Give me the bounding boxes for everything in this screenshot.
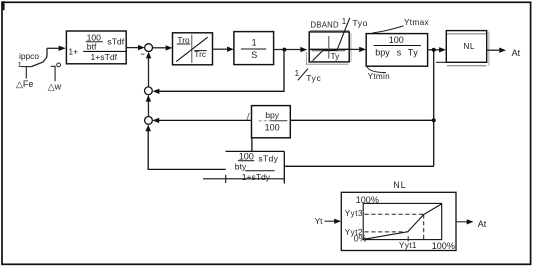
- arrowhead into S1: [138, 45, 145, 50]
- summing junction S1: [145, 44, 153, 52]
- leader Ytmax: [373, 26, 404, 33]
- arrowhead into S3: [152, 118, 159, 123]
- svg-text:1: 1: [252, 38, 257, 48]
- tick Yyt1: [407, 236, 409, 241]
- block G2 rate limiter Tro/Trc: [173, 33, 213, 65]
- svg-text:1+sTdf: 1+sTdf: [91, 52, 118, 62]
- leader Ytmin: [367, 67, 386, 73]
- svg-text:100%: 100%: [432, 241, 455, 251]
- wire NL detail output: [456, 221, 468, 223]
- svg-text:bty: bty: [235, 161, 247, 171]
- arrowhead into S1 from below: [146, 52, 151, 59]
- tick artifact at G5 input: [247, 113, 250, 121]
- block G3 integrator 1/S: [234, 32, 274, 65]
- wire G2 to G3: [213, 48, 228, 50]
- dashed Yyt3 line: [365, 213, 424, 215]
- svg-text:DBAND: DBAND: [310, 20, 339, 29]
- svg-text:100: 100: [389, 35, 404, 45]
- block DB deadband: [306, 18, 351, 64]
- switch blade: [32, 48, 48, 66]
- svg-text:sTdy: sTdy: [258, 154, 278, 164]
- NL detail outer box: [341, 192, 456, 250]
- wire switch to G1: [47, 47, 60, 49]
- svg-text:1: 1: [18, 60, 22, 69]
- svg-text:sTdf: sTdf: [107, 36, 124, 46]
- wire G5 to S3: [156, 119, 251, 121]
- svg-text:ippco: ippco: [19, 51, 39, 61]
- block G1 lead-lag 1+(100/btf)sTdf/(1+sTdf): [66, 31, 126, 64]
- svg-text:bpy: bpy: [265, 110, 280, 120]
- NL graph axes box: [363, 203, 442, 239]
- wire N1 feedback down: [157, 52, 285, 92]
- svg-text:Ytmin: Ytmin: [368, 72, 391, 81]
- block NL nonlinearity: [436, 31, 489, 66]
- wire S3 to S2: [147, 100, 149, 117]
- block G6 washout (100/bty)(sTdy/(1+sTdy)): [203, 151, 284, 183]
- arrowhead into S2 from below: [146, 95, 151, 102]
- svg-text:At: At: [512, 48, 521, 58]
- svg-text:100: 100: [265, 123, 280, 133]
- svg-text:Yyt1: Yyt1: [399, 241, 417, 250]
- summing junction S3: [145, 117, 153, 125]
- arrowhead output At: [467, 219, 474, 224]
- svg-text:0%: 0%: [354, 233, 367, 243]
- svg-text:100%: 100%: [356, 195, 379, 205]
- wire G1 to summer S1: [126, 47, 139, 49]
- NL characteristic curve: [363, 204, 441, 239]
- dashed Yyt2 line: [365, 231, 408, 233]
- wire dFe lead: [25, 67, 27, 79]
- node Yt junction dot: [432, 48, 436, 52]
- arrowhead into G1: [59, 46, 66, 51]
- minus sign at S1: [141, 53, 145, 55]
- svg-text:Tyo: Tyo: [352, 18, 368, 28]
- svg-text:At: At: [478, 219, 487, 229]
- svg-text:NL: NL: [463, 41, 475, 51]
- arrowhead At: [499, 48, 506, 53]
- svg-text:Trc: Trc: [194, 49, 206, 59]
- dashed vertical Yyt1-Yyt3 line: [423, 214, 425, 239]
- wire Yt node down: [433, 50, 435, 167]
- svg-text:NL: NL: [393, 180, 407, 190]
- arrowhead into G4: [359, 47, 366, 52]
- wire G4 to NL: [428, 49, 440, 51]
- svg-text:△w: △w: [48, 82, 62, 92]
- wire S1 to G2: [153, 47, 167, 49]
- contact 0 circle: [57, 63, 61, 67]
- block G4 servo 100/(bpy s Ty): [366, 34, 427, 67]
- svg-text:Ty: Ty: [408, 48, 419, 58]
- svg-text:100: 100: [239, 152, 254, 162]
- arrowhead into NL detail: [334, 219, 341, 224]
- svg-text:Yt: Yt: [315, 216, 324, 226]
- block G5 bpy/100: [252, 106, 291, 138]
- svg-text:1+sTdy: 1+sTdy: [242, 172, 271, 182]
- svg-text:S: S: [251, 50, 257, 60]
- wire NL to At: [487, 49, 499, 51]
- wire S2 to S1: [148, 57, 150, 87]
- svg-text:1: 1: [295, 69, 300, 78]
- wire G3 to deadband: [274, 49, 302, 51]
- node N1 junction dot: [282, 48, 286, 52]
- wire Yt to G6 input: [284, 165, 433, 167]
- svg-text:1+: 1+: [68, 46, 78, 56]
- summing junction S2: [145, 87, 153, 95]
- wire deadband to G4: [349, 48, 360, 50]
- label 1/Tyc: [298, 69, 308, 81]
- wire G6 to S3: [148, 129, 226, 170]
- contact 0 bracket: [51, 66, 55, 81]
- arrowhead into deadband: [300, 47, 307, 52]
- arrowhead into NL: [439, 47, 446, 52]
- arrowhead into G2: [166, 45, 173, 50]
- node Yt2 junction dot: [432, 118, 436, 122]
- svg-text:btf: btf: [87, 41, 97, 51]
- arrowhead into S3 from below: [146, 125, 151, 132]
- svg-text:△Fe: △Fe: [16, 79, 33, 89]
- wire G5 to G6 connector: [251, 138, 253, 152]
- svg-text:Tyc: Tyc: [306, 73, 321, 83]
- wire Yt arrow: [325, 220, 336, 222]
- corner mark: [2, 1, 5, 10]
- contact 1 bar: [21, 66, 32, 68]
- svg-text:bpy: bpy: [375, 48, 390, 58]
- svg-text:1: 1: [342, 17, 347, 26]
- svg-text:Ty: Ty: [331, 51, 341, 61]
- svg-text:Yyt3: Yyt3: [345, 209, 363, 218]
- wire Yt2 to G5: [290, 119, 433, 121]
- svg-text:Ytmax: Ytmax: [404, 18, 429, 27]
- svg-text:Tro: Tro: [177, 35, 190, 45]
- arrowhead into S2: [153, 89, 160, 94]
- svg-text:s: s: [397, 48, 402, 58]
- arrowhead into G3: [227, 47, 234, 52]
